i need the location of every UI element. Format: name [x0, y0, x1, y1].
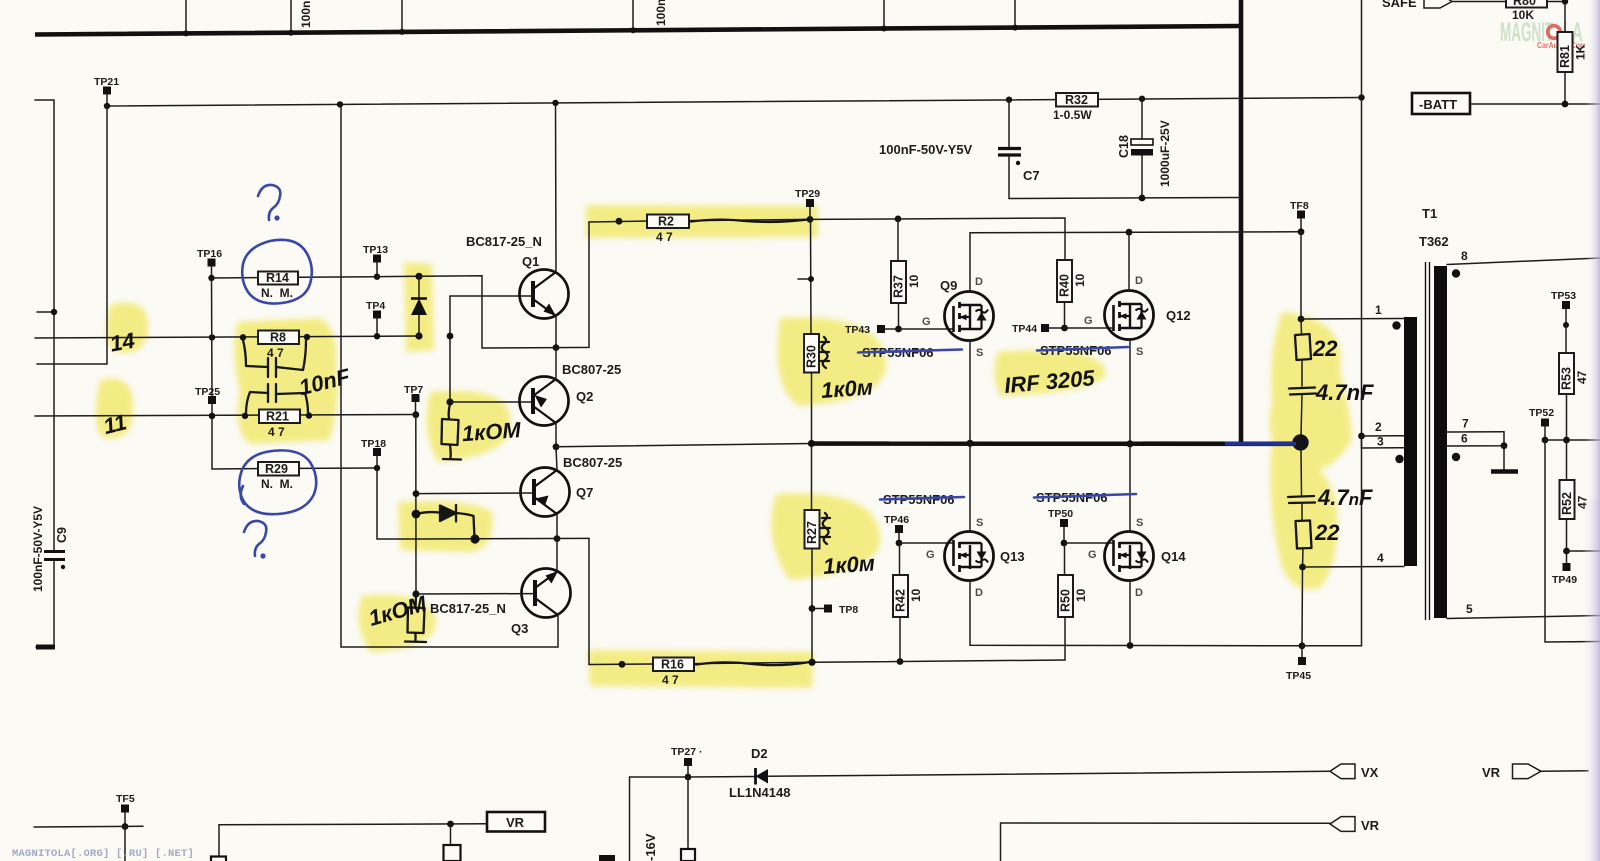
- test point TP53: [1551, 290, 1576, 328]
- wire Q2 base lead: [450, 401, 533, 403]
- wire Q12 drain up to node: [1128, 232, 1130, 291]
- transformer phase dot pin3: [1395, 455, 1403, 463]
- handwritten net number 14: [108, 328, 136, 357]
- wire VR column x450 to component: [450, 824, 452, 845]
- svg-text:4.7nF: 4.7nF: [1315, 380, 1374, 405]
- test point TP45: [1286, 646, 1311, 682]
- wire R14 row to diode column: [377, 275, 419, 277]
- wire R2 row to R37/R40: [810, 216, 1065, 261]
- svg-text:TP44: TP44: [1012, 323, 1037, 335]
- transformer phase dot pin6: [1452, 453, 1460, 461]
- component box cut at bottom (TP27 column): [681, 849, 695, 861]
- wire TF5 column to bottom edge: [124, 827, 126, 861]
- svg-text:Q7: Q7: [576, 485, 593, 500]
- transformer phase dot pin8: [1452, 269, 1460, 277]
- svg-text:10: 10: [1073, 273, 1087, 287]
- transistor Q9 (MOSFET): [922, 276, 994, 359]
- svg-text:R14: R14: [266, 271, 289, 285]
- svg-text:TP16: TP16: [197, 248, 222, 260]
- wire TP52 row y440: [1545, 437, 1600, 444]
- wire TP52 column down then right: [1545, 440, 1600, 642]
- resistor R2: [589, 215, 689, 245]
- transformer T1 secondary winding bar: [1434, 266, 1447, 618]
- wire stub to bus x633: [630, 0, 636, 33]
- svg-text:Q1: Q1: [522, 254, 539, 269]
- wire TP16/TP25 column x212: [208, 275, 214, 396]
- svg-text:S: S: [1136, 517, 1143, 529]
- wire Q3 collector riser: [556, 539, 558, 571]
- resistor R14 (N.M.): [212, 271, 378, 300]
- node 14 wire (row y338): [35, 334, 419, 341]
- svg-text:R52: R52: [1560, 492, 1574, 515]
- scanner edge band (right): [1582, 0, 1600, 861]
- svg-text:VR: VR: [1482, 765, 1501, 780]
- handwritten label 1kOm (R27): [822, 550, 876, 579]
- svg-text:100nF-50V-Y5V: 100nF-50V-Y5V: [31, 506, 45, 592]
- svg-text:10: 10: [907, 274, 921, 288]
- svg-text:Q14: Q14: [1161, 549, 1186, 564]
- svg-text:100nF-50V-Y5V: 100nF-50V-Y5V: [879, 142, 973, 157]
- wire R2 to TP29 (hand retraced squiggle): [689, 219, 810, 222]
- svg-text:T1: T1: [1422, 206, 1437, 221]
- svg-text:VR: VR: [506, 815, 525, 830]
- wire stub to bus x884: [881, 0, 887, 32]
- resistor 22 (lower snubber, hand retraced): [1296, 503, 1312, 567]
- svg-text:-16V: -16V: [643, 833, 658, 861]
- transistor Q12 (MOSFET): [1084, 275, 1191, 358]
- handwritten label 10nF: [296, 363, 352, 400]
- wire Q13 drain down to TP45 row: [970, 580, 1302, 649]
- resistor R52: [1560, 440, 1590, 551]
- svg-text:100n: 100n: [299, 1, 313, 28]
- svg-text:TP8: TP8: [839, 604, 858, 616]
- capacitor 4.7nF (lower snubber, hand drawn): [1300, 449, 1303, 495]
- capacitor C9 value label (rotated): [31, 506, 45, 592]
- svg-text:4 7: 4 7: [656, 230, 673, 244]
- svg-text:R50: R50: [1059, 589, 1073, 612]
- wire Q12 gate lead: [1065, 327, 1114, 329]
- svg-text:7: 7: [1462, 417, 1469, 431]
- wire transformer pin2/pin3 rows: [1362, 420, 1405, 449]
- test point TP4: [366, 300, 385, 339]
- yellow highlighter layer: [96, 205, 1352, 688]
- svg-text:N. M.: N. M.: [261, 286, 293, 300]
- resistor R29 (N.M.): [258, 462, 377, 491]
- wire TP45 row to right riser: [1302, 645, 1362, 647]
- wire TP27 column down to component: [687, 777, 689, 849]
- label STP55NF06 (Q14): [1036, 490, 1108, 505]
- handwritten label IRF 3205: [1003, 365, 1096, 398]
- handwritten capacitor pair between R8 and R21 (10nF): [243, 340, 308, 413]
- label STP55NF06 (Q13): [883, 492, 955, 507]
- wire Q7 emitter down to junction row: [554, 514, 561, 542]
- capacitor C9: [44, 527, 69, 569]
- wire Q2 collector down to Q7 collector junction: [553, 423, 560, 450]
- svg-text:100n: 100n: [654, 0, 668, 26]
- svg-text:R21: R21: [266, 410, 289, 424]
- wire Q14 gate lead: [1064, 542, 1114, 544]
- svg-text:TP29: TP29: [795, 188, 820, 200]
- svg-text:22: 22: [1312, 336, 1338, 361]
- blue pen circle around R14: [242, 240, 312, 304]
- component box cut at bottom (x219): [211, 857, 226, 861]
- svg-text:TP43: TP43: [845, 324, 870, 336]
- svg-text:14: 14: [108, 328, 136, 357]
- resistor R53: [1559, 325, 1589, 440]
- svg-text:R81: R81: [1558, 45, 1572, 68]
- svg-text:R42: R42: [894, 589, 908, 612]
- test point TP7: [404, 384, 423, 418]
- svg-text:1к0м: 1к0м: [822, 550, 876, 579]
- transformer T1 labels: [1419, 206, 1449, 249]
- svg-text:TP46: TP46: [884, 514, 909, 526]
- svg-text:BC807-25: BC807-25: [562, 362, 621, 377]
- wire Q9 gate lead: [899, 328, 954, 330]
- box label -BATT: [1412, 93, 1470, 114]
- svg-text:R30: R30: [805, 345, 819, 368]
- connector VR (bottom left-pointing): [1330, 817, 1380, 833]
- wire D2 row left corner: [630, 777, 689, 861]
- label STP55NF06 (Q9): [862, 345, 934, 360]
- wire Q14 source up to thick bus: [1129, 444, 1131, 532]
- blue pen question mark (bottom): [244, 521, 266, 559]
- transistor Q14 (MOSFET): [1088, 517, 1186, 599]
- svg-text:MAGNITOLA[.ORG] [.RU] [.NET]: MAGNITOLA[.ORG] [.RU] [.NET]: [12, 848, 194, 860]
- watermark magnitola.org (bottom left): [12, 848, 194, 860]
- svg-text:R29: R29: [265, 462, 288, 476]
- svg-text:S: S: [1136, 346, 1143, 358]
- svg-text:D: D: [1135, 275, 1143, 287]
- svg-text:BC817-25_N: BC817-25_N: [466, 234, 542, 249]
- svg-text:TP25: TP25: [195, 386, 220, 398]
- svg-text:TP13: TP13: [363, 244, 388, 256]
- transistor Q2 BC807-25: [520, 362, 622, 426]
- wire Q9 drain up and over to Q12 drain node: [970, 229, 1301, 292]
- svg-text:8: 8: [1461, 249, 1468, 263]
- capacitor value label 100n (rotated): [654, 0, 668, 26]
- capacitor C18 (electrolytic): [1117, 99, 1153, 198]
- wire D2 to VX connector: [768, 771, 1330, 776]
- wire upper snubber to star node: [1301, 395, 1302, 437]
- wire stub to bus x1015: [1012, 0, 1018, 31]
- svg-text:6: 6: [1461, 432, 1468, 446]
- wire TP7 column x416 down: [412, 415, 421, 598]
- test point TP29: [795, 188, 820, 223]
- wire TP18 column down and right to diode row: [377, 468, 416, 539]
- handwritten label 22 (upper): [1312, 336, 1338, 361]
- component box cut at bottom (x450): [444, 845, 461, 861]
- svg-text:R53: R53: [1560, 367, 1574, 390]
- svg-text:Q12: Q12: [1166, 308, 1191, 323]
- capacitor 4.7nF (upper snubber, hand drawn): [1289, 388, 1316, 395]
- transistor Q3 BC817-25_N: [430, 569, 571, 637]
- svg-text:TP49: TP49: [1552, 574, 1577, 586]
- svg-text:1-0.5W: 1-0.5W: [1053, 108, 1092, 122]
- test point TP52: [1529, 407, 1554, 443]
- handwritten resistor 1kOm at Q2 base: [442, 404, 462, 460]
- box label VR: [487, 812, 545, 832]
- test point TF5: [116, 793, 135, 830]
- wire R16 to R27 column (hand retraced squiggle): [694, 662, 812, 665]
- label -16V (rotated): [643, 833, 658, 861]
- test point TP8: [809, 604, 859, 616]
- wire TP18 diode row to Q3 collector junction: [416, 534, 589, 543]
- wire Q1 collector up to rail: [555, 103, 558, 272]
- handwritten scribble on R30 value: [820, 337, 829, 368]
- wire transformer pin4 row: [1299, 551, 1404, 570]
- capacitor C7: [998, 100, 1040, 199]
- svg-text:1: 1: [1375, 303, 1382, 317]
- connector VR (right-pointing, output): [1482, 764, 1588, 780]
- svg-text:3: 3: [1377, 435, 1384, 449]
- svg-text:TP45: TP45: [1286, 670, 1311, 682]
- wire VR output row L to connector: [1001, 823, 1331, 861]
- svg-text:VR: VR: [1361, 818, 1380, 833]
- svg-text:C18: C18: [1117, 135, 1131, 158]
- resistor R80 10K: [1506, 0, 1568, 22]
- test point TP43: [845, 324, 902, 336]
- test point TP49: [1552, 551, 1577, 586]
- svg-text:N. M.: N. M.: [261, 477, 293, 491]
- blue pen question mark (top): [258, 185, 280, 221]
- connector VX (left-pointing): [1330, 764, 1379, 780]
- handwritten label 1kOm (Q3): [366, 591, 430, 631]
- handwritten label 4.7nF (lower): [1317, 485, 1373, 510]
- wire left margin stub top: [35, 100, 54, 551]
- test point TP16: [197, 248, 222, 278]
- svg-text:LL1N4148: LL1N4148: [729, 785, 790, 800]
- test point TP18: [361, 438, 386, 471]
- wire C7/C18 bottom row to thick vertical: [1009, 195, 1241, 202]
- wire stub to bus x186: [183, 0, 189, 36]
- capacitor C18 value label (rotated): [1158, 120, 1172, 187]
- small dark component stub bottom left of D2 column: [599, 855, 615, 861]
- wire stub to bus x402: [399, 0, 405, 35]
- wire Q14 drain down to TP45 row: [1129, 580, 1131, 646]
- wire TF5 row stub: [34, 825, 143, 828]
- test point TF8: [1290, 200, 1309, 235]
- svg-text:D: D: [975, 587, 983, 599]
- svg-text:T362: T362: [1419, 234, 1449, 249]
- stub tick on R30 column: [798, 276, 814, 282]
- wire TP25 column down to R29 row: [209, 413, 258, 469]
- wire snubber column down to TP45 node: [1299, 567, 1306, 649]
- resistor R27: [805, 444, 820, 666]
- svg-text:G: G: [1084, 315, 1093, 327]
- test point TP13: [363, 244, 388, 280]
- wire TP21 column down-left: [37, 106, 107, 364]
- thick vertical feed wire x1240: [1239, 0, 1244, 443]
- svg-text:G: G: [926, 549, 935, 561]
- svg-text:TF8: TF8: [1290, 200, 1309, 212]
- svg-text:R2: R2: [658, 215, 674, 229]
- svg-text:10K: 10K: [1512, 8, 1534, 22]
- svg-text:-BATT: -BATT: [1419, 97, 1457, 112]
- handwritten net number 11: [101, 409, 129, 439]
- transistor Q13 (MOSFET): [926, 517, 1025, 599]
- wire Q13 gate lead: [899, 542, 954, 544]
- svg-text:BC817-25_N: BC817-25_N: [430, 601, 506, 616]
- handwritten resistor 1kOm at Q3 base: [405, 597, 426, 642]
- wire Q3 base lead: [416, 593, 535, 595]
- capacitor C7 value label: [879, 142, 973, 157]
- test point TP25: [195, 386, 220, 416]
- svg-text:TF5: TF5: [116, 793, 135, 805]
- resistor R32 (inline in rail): [1053, 93, 1098, 122]
- diode D2 LL1N4148: [688, 746, 790, 800]
- wire -BATT to R81 bottom: [1470, 101, 1600, 108]
- connector SAFE: [1382, 0, 1506, 10]
- svg-text:4.7nF: 4.7nF: [1317, 485, 1373, 510]
- resistor R16: [619, 658, 694, 688]
- svg-text:10: 10: [909, 588, 923, 602]
- wire Q1 emitter to junction: [553, 316, 560, 351]
- transistor Q7 BC807-25: [521, 455, 623, 517]
- wire transformer pin7/pin6 rows to ground: [1447, 417, 1507, 450]
- resistor R81 1K: [1558, 2, 1588, 105]
- wire Q7 collector up to junction: [556, 447, 557, 470]
- wire TP49 node stub right: [1563, 548, 1600, 555]
- svg-text:R27: R27: [805, 521, 819, 544]
- svg-text:10: 10: [1074, 588, 1088, 602]
- transformer T1 primary winding bar: [1404, 317, 1417, 566]
- resistor 22 (upper snubber, hand retraced): [1295, 319, 1311, 386]
- wire VR row left L: [219, 821, 487, 861]
- test point TP21: [94, 76, 119, 106]
- transformer T1 core lines: [1426, 262, 1430, 620]
- svg-text:2: 2: [1375, 420, 1382, 434]
- label STP55NF06 (Q12): [1040, 343, 1112, 358]
- svg-text:1кOM: 1кOM: [461, 417, 522, 446]
- thick common source bus y443: [811, 441, 1298, 446]
- svg-text:R8: R8: [270, 331, 286, 345]
- resistor R8: [258, 331, 299, 361]
- svg-text:C7: C7: [1023, 168, 1040, 183]
- svg-text:TP27 ·: TP27 ·: [671, 746, 703, 758]
- svg-text:VX: VX: [1361, 765, 1379, 780]
- wire C9 bottom lead to edge bar: [36, 560, 55, 648]
- svg-text:4 7: 4 7: [268, 425, 285, 439]
- wire transformer pin5 row: [1447, 602, 1600, 619]
- svg-text:BC807-25: BC807-25: [563, 455, 622, 470]
- svg-text:D2: D2: [751, 746, 768, 761]
- wire Q7/Q3 junction riser to R16 row: [589, 538, 622, 664]
- blue pen circle around R29: [239, 450, 316, 514]
- handwritten label 1kOm (R30): [820, 374, 874, 403]
- svg-text:1000uF-25V: 1000uF-25V: [1158, 120, 1172, 187]
- svg-text:Q9: Q9: [940, 278, 957, 293]
- svg-text:TP4: TP4: [366, 300, 385, 312]
- svg-text:5: 5: [1466, 602, 1473, 616]
- svg-text:Q13: Q13: [1000, 549, 1025, 564]
- svg-text:TP53: TP53: [1551, 290, 1576, 302]
- svg-text:TP21: TP21: [94, 76, 119, 88]
- wire TF8 column down to pin1 node: [1298, 232, 1305, 323]
- svg-text:D: D: [1135, 587, 1143, 599]
- handwritten scribble on R27 value: [821, 513, 830, 544]
- wire stub to bus x291: [288, 0, 294, 36]
- resistor R21: [259, 410, 300, 440]
- svg-text:4 7: 4 7: [662, 673, 679, 687]
- capacitor value label 100n (rotated): [299, 1, 313, 28]
- handwritten label 4.7nF (upper): [1315, 380, 1374, 405]
- diode (between R14 row and 14 row): [411, 273, 427, 340]
- wire Q2 emitter up to junction: [555, 348, 557, 379]
- watermark MAGNITOLA (top right): [1500, 16, 1585, 50]
- svg-text:R16: R16: [661, 658, 684, 672]
- test point TP44: [1012, 323, 1068, 335]
- svg-text:22: 22: [1314, 520, 1340, 545]
- svg-text:TP52: TP52: [1529, 407, 1554, 419]
- ground symbol (pin6/7): [1491, 446, 1518, 472]
- svg-text:TP50: TP50: [1048, 508, 1073, 520]
- svg-text:1к0м: 1к0м: [820, 374, 874, 403]
- long vertical wire x1361 (right): [1358, 0, 1365, 646]
- svg-text:R80: R80: [1513, 0, 1536, 8]
- wire Q13 source up to thick bus: [969, 444, 971, 533]
- star node junction blob: [1292, 434, 1308, 450]
- transistor Q1 BC817-25_N: [466, 234, 569, 319]
- transformer phase dot pin1: [1392, 321, 1400, 329]
- diode at TP18 row (hand retraced): [416, 505, 475, 539]
- wire Q12 source down to thick bus: [1126, 339, 1133, 447]
- wire gate-drive output row y447 to thick bus: [556, 444, 812, 447]
- wire Q7 base lead: [416, 492, 534, 495]
- wire R16 row to R42/R50 bottoms: [812, 658, 1065, 665]
- wire transformer pin1 row: [1301, 303, 1404, 319]
- resistor R42: [893, 543, 923, 662]
- handwritten label 1kOm (Q2): [461, 417, 522, 446]
- wire emitter junction to R2 riser: [556, 222, 589, 348]
- wire Q9 source down to thick bus: [966, 340, 973, 447]
- test point TP46: [884, 514, 909, 546]
- resistor R37: [891, 219, 921, 329]
- svg-text:D: D: [975, 276, 983, 288]
- svg-text:Q2: Q2: [576, 389, 593, 404]
- svg-text:SAFE: SAFE: [1382, 0, 1417, 10]
- resistor R50: [1058, 543, 1088, 660]
- resistor R30: [804, 219, 819, 447]
- svg-text:G: G: [922, 316, 931, 328]
- svg-text:S: S: [976, 347, 983, 359]
- svg-text:R37: R37: [892, 275, 906, 298]
- svg-text:R40: R40: [1058, 274, 1072, 297]
- blue strike through STP55NF06 (Q12): [1037, 347, 1128, 351]
- svg-text:4: 4: [1377, 551, 1384, 565]
- test point TP50: [1048, 508, 1073, 546]
- wire Q1 base lead: [450, 295, 533, 297]
- blue strike through STP55NF06 (Q13): [880, 497, 964, 500]
- wire transformer pin8 row: [1447, 249, 1600, 265]
- top power bus (thick): [35, 26, 1241, 35]
- node 11 wire (row y416): [35, 412, 416, 419]
- svg-text:Q3: Q3: [511, 621, 528, 636]
- svg-text:S: S: [976, 517, 983, 529]
- svg-text:R32: R32: [1065, 93, 1088, 107]
- wire left stub mid with junction: [37, 309, 57, 315]
- wire Q1 base network vertical x450: [446, 296, 453, 406]
- test point TP27: [671, 746, 703, 780]
- blue pen overdraw on thick bus near star node: [1225, 442, 1296, 446]
- wire Q3 emitter down and left around block: [341, 104, 558, 647]
- svg-text:1K: 1K: [1574, 44, 1588, 60]
- node wire from TP21 across top (VCC drive rail): [104, 94, 1365, 109]
- blue strike through STP55NF06 (Q9): [858, 350, 962, 353]
- resistor R40: [1057, 260, 1087, 328]
- svg-text:C9: C9: [55, 527, 69, 543]
- handwritten label 22 (lower): [1314, 520, 1340, 545]
- wire R14 node to Q1 emitter junction: [419, 276, 556, 348]
